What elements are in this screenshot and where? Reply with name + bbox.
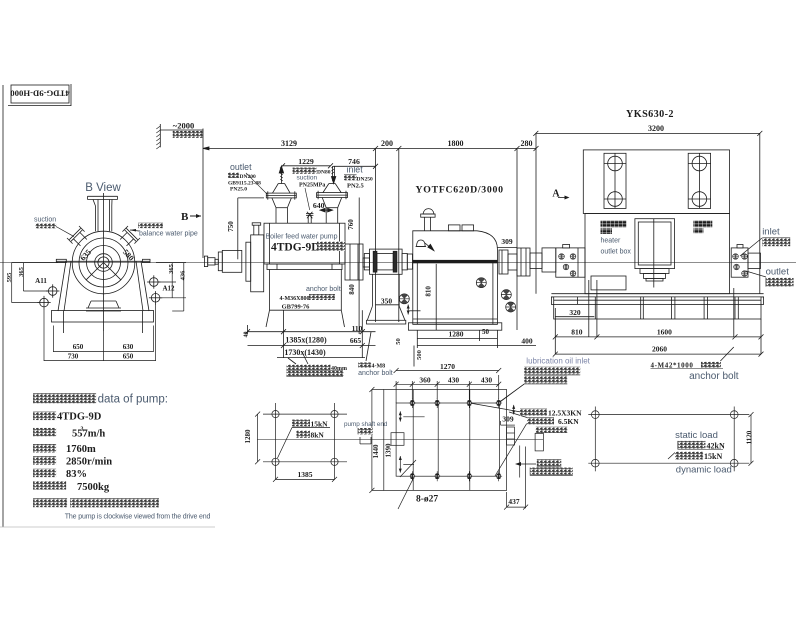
svg-text:Boiler feed water pump: Boiler feed water pump xyxy=(266,234,338,241)
750/760 vertical dim lines xyxy=(237,198,239,259)
309 dim right plan xyxy=(501,424,515,426)
outlet nozzle xyxy=(266,193,296,198)
svg-text:309: 309 xyxy=(502,415,514,424)
svg-text:dynamic load: dynamic load xyxy=(676,465,732,476)
breather xyxy=(423,209,434,214)
svg-text:B: B xyxy=(181,211,189,223)
lifting frames xyxy=(604,153,626,208)
static load plan xyxy=(591,411,599,419)
svg-text:1385x(1280): 1385x(1280) xyxy=(285,336,327,345)
outlet upper cone xyxy=(273,184,279,194)
svg-text:pump shaft end: pump shaft end xyxy=(344,421,388,428)
svg-text:840: 840 xyxy=(348,284,356,295)
svg-text:640: 640 xyxy=(313,201,325,210)
right bearing + shaft xyxy=(345,244,363,280)
base plates xyxy=(408,323,501,330)
left shaft xyxy=(204,256,207,267)
svg-text:3129: 3129 xyxy=(281,139,297,148)
1229 / 746 dims xyxy=(283,165,331,167)
inlet nozzle xyxy=(317,193,348,198)
top dim chain xyxy=(203,147,536,149)
top block xyxy=(583,150,729,214)
svg-text:810: 810 xyxy=(424,286,432,297)
437 dim xyxy=(525,447,527,509)
svg-text:anchor bolt: anchor bolt xyxy=(306,286,341,293)
oil can symbol + arrow xyxy=(417,240,426,247)
body xyxy=(56,260,150,262)
anchor bolt leader xyxy=(720,347,733,361)
svg-text:anchor bolt: anchor bolt xyxy=(358,370,393,377)
svg-text:110: 110 xyxy=(352,324,363,333)
810 dim xyxy=(435,264,437,330)
svg-text:15kN: 15kN xyxy=(704,452,722,461)
large hatched bolt circles xyxy=(399,278,515,312)
svg-text:YOTFC620D/3000: YOTFC620D/3000 xyxy=(416,185,504,196)
plan centerline xyxy=(257,439,543,441)
svg-text:730: 730 xyxy=(68,353,79,361)
gearbox-motor coupling xyxy=(499,250,508,274)
sheet border left xyxy=(2,85,4,527)
svg-text:outlet: outlet xyxy=(766,267,790,278)
B view dims xyxy=(12,263,186,362)
840 dim vline xyxy=(358,263,360,335)
svg-text:1120: 1120 xyxy=(745,430,753,444)
foundation dim rows xyxy=(247,325,249,335)
309 dim xyxy=(497,247,517,249)
pump foundation xyxy=(269,270,271,311)
oil inlet arrow xyxy=(517,463,536,465)
B view vertical centerline xyxy=(103,193,105,331)
svg-text:1390: 1390 xyxy=(385,443,393,458)
1440/1390 dims xyxy=(371,390,373,491)
1270 dim xyxy=(396,370,499,372)
inlet flow arrow (down) xyxy=(332,166,334,181)
leaders to labels xyxy=(499,384,525,403)
top small fittings xyxy=(448,225,460,231)
balance pipe label xyxy=(138,223,163,228)
svg-text:1800: 1800 xyxy=(448,139,464,148)
svg-text:437: 437 xyxy=(508,497,520,506)
left plan bolt circles xyxy=(272,411,279,418)
svg-text:15kN: 15kN xyxy=(311,419,329,428)
outlet flow arrow (up) xyxy=(280,171,282,184)
svg-text:A11: A11 xyxy=(35,277,47,285)
svg-text:320: 320 xyxy=(569,308,581,317)
svg-text:PN2.5: PN2.5 xyxy=(347,183,365,190)
right pedestal xyxy=(731,248,748,277)
svg-text:40: 40 xyxy=(244,332,250,338)
lubrication leader xyxy=(499,384,525,403)
静负荷 labels xyxy=(520,409,547,416)
svg-text:3200: 3200 xyxy=(648,124,664,133)
svg-text:595: 595 xyxy=(6,272,13,283)
svg-text:350: 350 xyxy=(381,297,393,306)
svg-text:The pump is clockwise viewed f: The pump is clockwise viewed from the dr… xyxy=(65,513,211,520)
small interior marks xyxy=(399,411,401,421)
svg-text:GB799-76: GB799-76 xyxy=(282,304,311,311)
motor bolt symbols xyxy=(559,254,748,277)
svg-text:heater: heater xyxy=(601,238,622,245)
350 dim xyxy=(376,304,399,306)
svg-text:4-M36X800: 4-M36X800 xyxy=(280,296,310,302)
svg-text:3: 3 xyxy=(81,427,84,433)
svg-text:4-M42*1000: 4-M42*1000 xyxy=(651,361,694,369)
进油口 labels xyxy=(537,459,562,466)
heater labels xyxy=(601,220,627,227)
svg-text:400: 400 xyxy=(521,337,533,346)
svg-text:760: 760 xyxy=(347,219,355,230)
svg-text:static load: static load xyxy=(675,430,718,441)
svg-text:1760m: 1760m xyxy=(66,444,96,455)
svg-text:810: 810 xyxy=(571,328,583,337)
svg-text:4-M8: 4-M8 xyxy=(372,364,386,370)
svg-text:665: 665 xyxy=(350,336,362,345)
svg-text:data of pump:: data of pump: xyxy=(98,394,168,406)
svg-text:7500kg: 7500kg xyxy=(77,482,110,493)
balance pipe stub xyxy=(306,213,313,215)
pump shaft end mark xyxy=(359,437,361,444)
bolt symbols B view xyxy=(37,275,162,309)
right plan xyxy=(384,390,507,491)
svg-text:8-ø27: 8-ø27 xyxy=(416,495,438,505)
svg-text:1440: 1440 xyxy=(372,444,380,459)
top flange xyxy=(88,195,118,197)
svg-text:YKS630-2: YKS630-2 xyxy=(626,109,674,120)
svg-text:2850r/min: 2850r/min xyxy=(66,457,112,468)
foot pedestal xyxy=(91,300,116,302)
title block box xyxy=(11,85,69,103)
svg-text:lubrication oil inlet: lubrication oil inlet xyxy=(526,357,590,366)
svg-text:309: 309 xyxy=(501,237,513,246)
top dim chain 360/430/430 xyxy=(395,381,397,403)
left bearing housing xyxy=(246,242,251,281)
anchor stud mark xyxy=(407,305,409,315)
dims below base xyxy=(555,316,594,318)
main body xyxy=(585,214,730,294)
svg-text:1229: 1229 xyxy=(298,157,314,166)
svg-text:650: 650 xyxy=(123,353,134,361)
3200 dim xyxy=(536,132,760,134)
svg-text:650: 650 xyxy=(73,343,84,351)
svg-text:outlet: outlet xyxy=(230,162,252,172)
svg-text:360: 360 xyxy=(419,375,431,384)
hatch wall ~2000 xyxy=(159,124,161,147)
svg-text:A12: A12 xyxy=(162,285,175,293)
leaders under foundation xyxy=(288,358,296,364)
svg-text:suction: suction xyxy=(297,175,318,182)
svg-text:8kN: 8kN xyxy=(311,430,325,439)
suction + balance nozzles xyxy=(73,239,80,246)
coupling xyxy=(370,249,403,274)
base block xyxy=(52,311,154,323)
svg-text:inlet: inlet xyxy=(762,227,780,238)
svg-text:430: 430 xyxy=(481,375,493,384)
casing circles xyxy=(72,231,135,294)
svg-text:PN25.0: PN25.0 xyxy=(230,187,247,193)
svg-text:200: 200 xyxy=(381,139,393,148)
svg-text:B View: B View xyxy=(85,182,121,194)
coupling pedestal xyxy=(371,274,373,306)
svg-text:1280: 1280 xyxy=(244,429,252,444)
svg-text:4TDG-9D-H000: 4TDG-9D-H000 xyxy=(10,88,70,98)
svg-text:750: 750 xyxy=(227,221,235,232)
left plan dims xyxy=(257,414,259,462)
svg-text:280: 280 xyxy=(521,139,533,148)
inlet/outlet oil labels xyxy=(740,238,762,256)
svg-text:42kN: 42kN xyxy=(707,442,725,451)
V lines in circle xyxy=(86,263,103,280)
svg-text:557m/h: 557m/h xyxy=(72,429,105,440)
pump body xyxy=(264,223,345,264)
svg-text:inlet: inlet xyxy=(347,165,364,175)
svg-text:365: 365 xyxy=(18,266,25,277)
svg-text:anchor bolt: anchor bolt xyxy=(689,371,739,382)
svg-text:365: 365 xyxy=(168,263,175,274)
svg-text:500: 500 xyxy=(416,350,423,360)
svg-text:1280: 1280 xyxy=(449,330,464,339)
plan bolt dots xyxy=(409,398,502,481)
svg-text:balance water pipe: balance water pipe xyxy=(139,230,198,237)
svg-text:630: 630 xyxy=(123,343,134,351)
svg-text:4TDG-9D: 4TDG-9D xyxy=(57,412,102,423)
main shaft centerline xyxy=(0,262,796,264)
svg-text:outlet box: outlet box xyxy=(601,249,632,256)
motor left pedestal xyxy=(556,248,585,277)
8-ø27 leader xyxy=(398,477,414,509)
svg-text:50: 50 xyxy=(482,328,490,336)
svg-text:~2000: ~2000 xyxy=(173,121,194,131)
svg-text:436: 436 xyxy=(180,270,187,281)
base rails xyxy=(551,293,763,295)
svg-text:430: 430 xyxy=(448,375,460,384)
640 dim xyxy=(320,209,333,211)
svg-text:suction: suction xyxy=(34,217,56,224)
leader static xyxy=(292,427,330,429)
svg-text:1600: 1600 xyxy=(657,328,672,337)
svg-text:4TDG-9D: 4TDG-9D xyxy=(271,242,320,254)
svg-text:1730x(1430): 1730x(1430) xyxy=(284,348,326,357)
svg-text:1385: 1385 xyxy=(298,470,313,479)
svg-text:50: 50 xyxy=(395,338,402,345)
svg-text:PN25MPa: PN25MPa xyxy=(299,183,325,189)
anchor bolt verticals xyxy=(588,280,590,337)
svg-text:6.5KN: 6.5KN xyxy=(558,417,579,426)
svg-text:12.5X3KN: 12.5X3KN xyxy=(548,408,582,417)
svg-text:83%: 83% xyxy=(66,469,87,480)
svg-text:DN80: DN80 xyxy=(317,170,331,176)
svg-text:1270: 1270 xyxy=(440,362,455,371)
inlet upper cone xyxy=(323,184,329,193)
svg-text:2060: 2060 xyxy=(652,345,667,354)
pipe xyxy=(95,206,97,231)
